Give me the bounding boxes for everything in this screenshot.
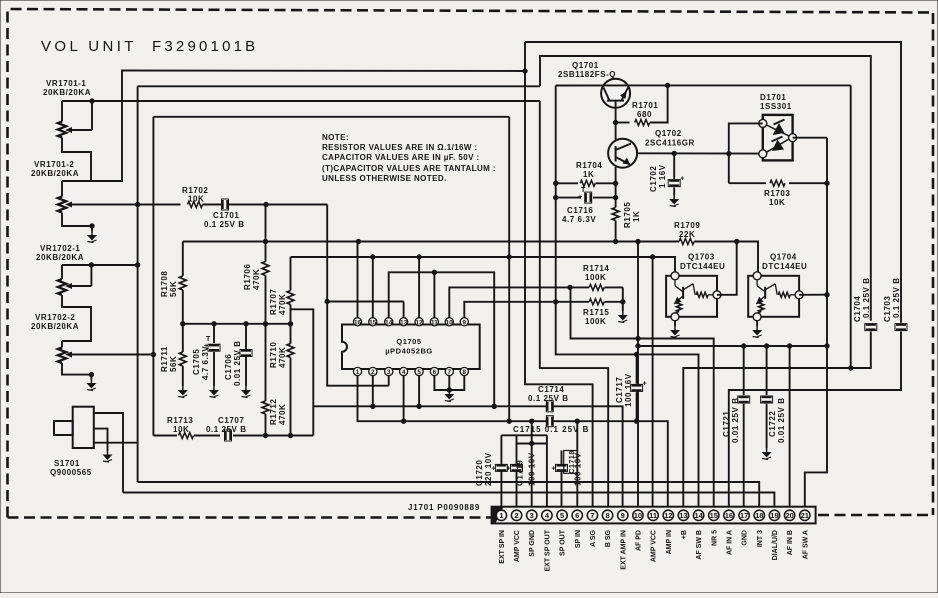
connector pin labels <box>499 529 809 571</box>
resistor R1701 <box>616 85 668 125</box>
svg-text:100 16V: 100 16V <box>624 373 633 407</box>
svg-text:B SG: B SG <box>605 529 612 547</box>
svg-text:0.01 25V B: 0.01 25V B <box>233 340 242 386</box>
svg-text:20: 20 <box>785 511 793 520</box>
wire y301.5 x327-trunk to pin13 <box>325 299 404 303</box>
wire x509 trunk <box>508 117 510 421</box>
potentiometer VR1701-1 <box>58 101 92 138</box>
transistor Q1704 <box>748 272 803 321</box>
svg-text:R1712: R1712 <box>269 399 278 425</box>
svg-text:7: 7 <box>448 369 452 376</box>
svg-text:SP GND: SP GND <box>529 530 536 557</box>
svg-text:R1708: R1708 <box>160 271 169 297</box>
svg-text:2SB1182FS-Q: 2SB1182FS-Q <box>558 70 616 79</box>
svg-text:VR1702-1: VR1702-1 <box>40 244 80 253</box>
svg-text:3: 3 <box>387 369 391 376</box>
resistor R1709 <box>674 221 700 245</box>
svg-text:C1719: C1719 <box>516 460 525 486</box>
svg-text:AF IN A: AF IN A <box>726 530 733 555</box>
wire x265.5 column C1701-R1706 <box>265 205 267 242</box>
wire bus4 <box>153 116 509 118</box>
svg-text:0.1 25V B: 0.1 25V B <box>862 277 871 318</box>
svg-text:C1721: C1721 <box>722 411 731 437</box>
wire IC pin2 down <box>372 376 374 407</box>
wire R1714 R1715 join <box>622 287 624 311</box>
resistor R1706 <box>243 242 269 324</box>
svg-text:10: 10 <box>634 511 642 520</box>
ground S1701 <box>103 451 113 463</box>
wire Q1702 collector out <box>637 150 763 156</box>
svg-text:C1704: C1704 <box>853 296 862 322</box>
ground VR1701-2 <box>87 231 97 243</box>
Q1703 label <box>680 253 725 271</box>
capacitor C1721 <box>722 346 750 507</box>
wire p11 feed <box>652 257 654 507</box>
svg-text:1SS301: 1SS301 <box>760 102 792 111</box>
svg-text:CAPACITOR VALUES ARE IN µF. 50: CAPACITOR VALUES ARE IN µF. 50V : <box>322 153 480 162</box>
ground Q1703 <box>670 326 680 338</box>
wire p5 col <box>561 451 563 507</box>
diode D1701 box <box>759 115 797 160</box>
wire trunk x137.6 bus2-to-S1701 line <box>135 86 139 482</box>
wire trunk x153.4 <box>151 117 155 436</box>
wire bus2 <box>138 85 540 87</box>
Q1704 label <box>762 253 807 271</box>
svg-text:SP OUT: SP OUT <box>560 529 567 556</box>
wire p4 col <box>546 435 548 506</box>
svg-text:F3290101B: F3290101B <box>152 38 258 55</box>
svg-text:4.7 6.3V: 4.7 6.3V <box>201 346 210 380</box>
svg-text:Q1705: Q1705 <box>396 337 421 346</box>
capacitor C1703 <box>883 277 907 330</box>
svg-text:C1720: C1720 <box>475 460 484 486</box>
svg-text:470K: 470K <box>278 347 287 368</box>
svg-text:EXT AMP IN: EXT AMP IN <box>620 530 627 570</box>
svg-text:C1701: C1701 <box>213 211 239 220</box>
ground R1711 <box>178 386 188 398</box>
svg-text:GND: GND <box>742 530 749 546</box>
capacitor C1717 <box>615 354 647 421</box>
potentiometer VR1702-2 <box>58 341 154 363</box>
svg-text:0.01 25V B: 0.01 25V B <box>777 397 786 443</box>
svg-text:A SG: A SG <box>590 529 597 546</box>
svg-text:680: 680 <box>637 110 652 119</box>
VR1701-1 label <box>43 79 91 97</box>
svg-text:16: 16 <box>725 511 733 520</box>
svg-text:100K: 100K <box>585 273 606 282</box>
transistor Q1702 <box>608 139 637 168</box>
wire IC pin16 up <box>357 242 359 318</box>
wire y492.5 line to pin19 <box>123 493 774 507</box>
svg-text:12: 12 <box>416 319 424 326</box>
svg-text:R1706: R1706 <box>243 264 252 290</box>
svg-text:20KB/20KA: 20KB/20KA <box>31 322 79 331</box>
svg-text:INT 3: INT 3 <box>757 530 764 547</box>
svg-text:1: 1 <box>499 511 503 520</box>
wire VR1702-1 top node <box>62 263 138 267</box>
wire VR1701-2 bottom <box>62 213 94 232</box>
resistor R1710 <box>269 342 294 436</box>
svg-text:12: 12 <box>664 511 672 520</box>
wire x850 trunk <box>850 85 852 368</box>
svg-text:C1705: C1705 <box>192 349 201 375</box>
svg-text:10K: 10K <box>173 425 189 434</box>
wire IC pins 6 7 8 ground <box>434 376 464 393</box>
svg-text:C1703: C1703 <box>883 296 892 322</box>
wire IC pin10 to R1714 <box>449 285 623 318</box>
svg-text:DTC144EU: DTC144EU <box>762 262 807 271</box>
svg-text:8: 8 <box>463 369 467 376</box>
svg-text:9: 9 <box>621 511 625 520</box>
svg-text:13: 13 <box>679 511 687 520</box>
resistor R1714 <box>583 264 609 290</box>
capacitor C1722 <box>761 346 786 448</box>
wire bus1 to pin7 staircase <box>523 42 593 507</box>
svg-text:56K: 56K <box>169 356 178 372</box>
wire Q1702 emitter down <box>615 167 617 242</box>
wire IC pin13 up <box>403 302 405 318</box>
svg-text:+: + <box>578 194 582 201</box>
svg-text:20KB/20KA: 20KB/20KA <box>36 253 84 262</box>
svg-text:17: 17 <box>740 511 748 520</box>
wire D1701 left pins <box>729 123 763 183</box>
svg-text:AF PD: AF PD <box>635 530 642 551</box>
svg-text:13: 13 <box>400 319 408 326</box>
svg-text:18: 18 <box>755 511 763 520</box>
wire Q1704 out <box>799 294 827 296</box>
wire C1707 to x313 <box>233 433 313 437</box>
connector pins <box>496 510 810 520</box>
wire IC pin4 down <box>403 376 405 422</box>
capacitor C1707 <box>206 416 247 441</box>
wire S1701 B to ground <box>94 429 108 451</box>
wire C1701 to x327 <box>264 202 327 206</box>
svg-text:4: 4 <box>402 369 406 376</box>
ground VR1702-2 <box>86 379 96 391</box>
wire VR1701-1 top node <box>62 99 540 103</box>
svg-text:0.1 25V B: 0.1 25V B <box>892 277 901 318</box>
connector J1701 body <box>492 507 816 524</box>
wire C1714 net <box>313 404 622 507</box>
svg-text:10: 10 <box>446 319 454 326</box>
ground C1722 <box>762 448 772 460</box>
note block <box>322 133 496 183</box>
wire D1701 right pin <box>793 137 827 139</box>
VR1702-1 label <box>36 244 84 262</box>
resistor R1702 <box>138 186 266 208</box>
wire Q1703 gnd <box>674 321 676 326</box>
svg-text:T: T <box>206 336 211 343</box>
svg-text:R1715: R1715 <box>583 308 609 317</box>
wire IC pin3 down <box>388 376 390 386</box>
wire rect2 corner <box>540 56 871 321</box>
transistor Q1701 <box>601 79 630 140</box>
wire rail y323.8 <box>181 322 293 326</box>
svg-text:19: 19 <box>770 511 778 520</box>
capacitor C1701 <box>204 199 245 229</box>
svg-text:+: + <box>507 465 511 472</box>
wire p1 col <box>500 435 502 506</box>
svg-text:22K: 22K <box>679 230 695 239</box>
svg-text:100K: 100K <box>585 317 606 326</box>
svg-text:220 10V: 220 10V <box>484 452 493 486</box>
wire VR1702-2 bottom <box>62 363 94 379</box>
wire y272.3 net <box>389 270 495 406</box>
ground C1702 <box>669 195 679 207</box>
svg-text:AMP IN: AMP IN <box>666 530 673 554</box>
wire x827 trunk <box>805 138 829 507</box>
wire Q1704 gnd <box>756 321 758 326</box>
wire p20 feed <box>789 346 791 507</box>
wire p10 trunk <box>636 242 640 507</box>
svg-text:9: 9 <box>463 319 467 326</box>
wire y257 net <box>291 255 676 272</box>
wire y482 line to pin18 <box>138 482 760 507</box>
svg-text:1K: 1K <box>632 211 641 222</box>
capacitor C1705 tantalum <box>192 324 220 386</box>
svg-text:2SC4116GR: 2SC4116GR <box>645 139 695 148</box>
svg-text:C1706: C1706 <box>224 354 233 380</box>
svg-text:11: 11 <box>649 511 657 520</box>
svg-text:RESISTOR VALUES ARE IN Ω.1/16: RESISTOR VALUES ARE IN Ω.1/16W : <box>322 143 478 152</box>
svg-text:VR1702-2: VR1702-2 <box>35 313 75 322</box>
VR1701-2 label <box>31 160 79 178</box>
wire IC pin11 up <box>433 272 435 317</box>
svg-text:R1714: R1714 <box>583 264 609 273</box>
wire IC pin15 up <box>372 257 374 318</box>
svg-text:56K: 56K <box>169 281 178 297</box>
wire IC pin12 up <box>418 257 420 318</box>
svg-text:6: 6 <box>575 511 579 520</box>
wire line P y346 <box>638 344 827 348</box>
title VOL UNIT F3290101B <box>41 38 258 55</box>
svg-text:1K: 1K <box>583 170 594 179</box>
wire p2 col <box>516 435 518 506</box>
wire bus y241.5 <box>183 239 758 243</box>
svg-text:+: + <box>643 380 647 387</box>
resistor R1713 <box>153 416 220 439</box>
capacitor C1706 <box>224 324 252 386</box>
ground C1705 <box>209 386 219 398</box>
svg-text:J1701 P0090889: J1701 P0090889 <box>408 503 480 512</box>
svg-text:21: 21 <box>801 511 809 520</box>
svg-text:R1709: R1709 <box>674 221 700 230</box>
svg-text:R1707: R1707 <box>269 289 278 315</box>
svg-text:C1716: C1716 <box>567 206 593 215</box>
ground IC <box>444 390 454 402</box>
capacitor C1716 tantalum <box>556 187 618 224</box>
wire C1703 bottom to pin16 <box>729 332 901 507</box>
svg-text:0.01 25V B: 0.01 25V B <box>731 397 740 443</box>
capacitor C1715 <box>513 416 589 434</box>
resistor R1715 <box>583 299 609 326</box>
svg-text:µPD4052BG: µPD4052BG <box>385 347 433 356</box>
wire p3 col <box>531 435 533 506</box>
svg-text:AMP VCC: AMP VCC <box>514 530 521 562</box>
wire S1701 C to trunk <box>94 442 138 444</box>
capacitor C1718 <box>552 450 583 486</box>
svg-text:VOL UNIT: VOL UNIT <box>41 38 137 55</box>
wire trunk x327.2 <box>327 205 389 386</box>
svg-text:C1717: C1717 <box>615 377 624 403</box>
svg-text:Q9000565: Q9000565 <box>50 468 92 477</box>
svg-text:20KB/20KA: 20KB/20KA <box>43 88 91 97</box>
wire IC pin5 down <box>418 376 420 407</box>
Q1701 label <box>558 61 616 79</box>
capacitor C1714 <box>528 385 569 412</box>
capacitor C1720 <box>475 452 507 486</box>
svg-text:15: 15 <box>710 511 718 520</box>
svg-text:16: 16 <box>354 319 362 326</box>
ground Q1704 <box>752 326 762 338</box>
svg-text:10K: 10K <box>769 198 785 207</box>
svg-text:7: 7 <box>590 511 594 520</box>
svg-text:+B: +B <box>681 530 688 539</box>
S1701 label <box>50 459 92 477</box>
transistor Q1703 <box>666 272 721 321</box>
svg-text:EXT SP OUT: EXT SP OUT <box>544 529 551 571</box>
ground C1706 <box>241 386 251 398</box>
svg-text:6: 6 <box>433 369 437 376</box>
svg-text:SP IN: SP IN <box>575 530 582 548</box>
connector J1701 label <box>408 503 480 512</box>
svg-text:Q1701: Q1701 <box>572 61 599 70</box>
wire S1701 A to y492.5 <box>94 413 123 493</box>
wire VR1702-1 bottom jog <box>62 295 91 341</box>
svg-text:1 16V: 1 16V <box>658 164 667 188</box>
svg-text:14: 14 <box>385 319 393 326</box>
resistor R1712 <box>262 324 287 436</box>
wire bus1 left corner <box>62 71 525 182</box>
svg-text:VR1701-1: VR1701-1 <box>46 79 86 88</box>
wire p15 feed <box>571 287 714 506</box>
svg-text:DTC144EU: DTC144EU <box>680 262 725 271</box>
resistor R1705 <box>612 202 641 228</box>
svg-text:VR1701-2: VR1701-2 <box>34 160 74 169</box>
VR1702-2 label <box>31 313 79 331</box>
svg-text:5: 5 <box>417 369 421 376</box>
svg-text:470K: 470K <box>252 269 261 290</box>
svg-text:Q1702: Q1702 <box>655 129 682 138</box>
svg-text:UNLESS OTHERWISE NOTED.: UNLESS OTHERWISE NOTED. <box>322 174 447 183</box>
svg-text:100 10V: 100 10V <box>528 452 537 486</box>
svg-text:14: 14 <box>694 511 703 520</box>
svg-text:R1713: R1713 <box>167 416 193 425</box>
svg-text:+: + <box>680 176 684 183</box>
svg-text:10K: 10K <box>188 195 204 204</box>
svg-text:470K: 470K <box>278 404 287 425</box>
wire bus3 corner <box>540 101 608 507</box>
wire bus to Q1704 base <box>737 242 758 272</box>
svg-text:2: 2 <box>371 369 375 376</box>
D1701 label <box>760 93 792 111</box>
svg-text:Q1704: Q1704 <box>770 253 797 262</box>
svg-text:(T)CAPACITOR VALUES ARE TANTAL: (T)CAPACITOR VALUES ARE TANTALUM : <box>322 164 496 173</box>
ground R1714 R1715 <box>618 300 628 323</box>
potentiometer VR1702-1 <box>58 265 92 295</box>
svg-text:470K: 470K <box>278 294 287 315</box>
capacitor C1719 <box>507 452 537 486</box>
svg-text:+: + <box>552 465 556 472</box>
svg-text:AF SW A: AF SW A <box>802 530 809 559</box>
wire p6 col <box>576 421 578 507</box>
Q1702 label <box>645 129 695 148</box>
svg-text:5: 5 <box>560 511 564 520</box>
svg-text:C1722: C1722 <box>768 411 777 437</box>
wire Q1703 out <box>717 242 737 295</box>
svg-text:20KB/20KA: 20KB/20KA <box>31 169 79 178</box>
wire IC pin9 to R1715 <box>464 300 623 318</box>
svg-text:0.1 25V B: 0.1 25V B <box>206 425 247 434</box>
svg-text:R1704: R1704 <box>576 161 602 170</box>
svg-text:4.7 6.3V: 4.7 6.3V <box>562 215 596 224</box>
svg-text:R1705: R1705 <box>623 202 632 228</box>
svg-text:NR 5: NR 5 <box>711 530 718 546</box>
svg-text:8: 8 <box>606 511 610 520</box>
svg-text:AMP VCC: AMP VCC <box>651 530 658 562</box>
capacitor C1704 <box>853 277 877 330</box>
svg-text:0.1 25V B: 0.1 25V B <box>528 394 569 403</box>
switch S1701 body <box>54 407 94 448</box>
svg-text:R1703: R1703 <box>764 189 790 198</box>
wire cap box top <box>501 421 547 445</box>
svg-text:S1701: S1701 <box>54 459 80 468</box>
svg-text:EXT SP IN: EXT SP IN <box>499 530 506 564</box>
svg-text:AF IN B: AF IN B <box>787 530 794 555</box>
wire VR1701-1 bottom jog <box>62 138 91 182</box>
resistor R1708 <box>160 242 186 324</box>
IC pin circles <box>353 318 468 376</box>
svg-text:AF SW B: AF SW B <box>696 530 703 560</box>
resistor R1703 <box>729 180 829 207</box>
svg-text:1: 1 <box>356 369 360 376</box>
potentiometer VR1701-2 <box>58 181 138 213</box>
svg-text:DIAL/U/D: DIAL/U/D <box>772 530 779 560</box>
svg-text:0.1 25V B: 0.1 25V B <box>204 220 245 229</box>
wire Q1703 in <box>653 256 675 258</box>
svg-text:11: 11 <box>431 319 438 326</box>
svg-text:R1701: R1701 <box>632 101 658 110</box>
svg-text:3: 3 <box>530 511 534 520</box>
wire C1704 bottom to pin13 <box>683 332 871 507</box>
wire rect1 top <box>525 42 901 323</box>
svg-text:C1707: C1707 <box>218 416 244 425</box>
resistor R1711 <box>160 324 186 386</box>
wire Q1701 top rail <box>556 83 851 87</box>
wire C1715 net <box>358 376 668 507</box>
svg-text:C1714: C1714 <box>538 385 564 394</box>
svg-text:15: 15 <box>369 319 377 326</box>
wire x555 trunk supply <box>554 86 699 507</box>
svg-text:T: T <box>581 187 586 194</box>
resistor R1707 <box>269 257 294 344</box>
capacitor C1702 <box>649 153 684 195</box>
svg-text:D1701: D1701 <box>760 93 786 102</box>
wire R1707R1710 junction to C1707 wire <box>291 309 314 435</box>
svg-text:NOTE:: NOTE: <box>322 133 349 142</box>
svg-text:C1702: C1702 <box>649 166 658 192</box>
IC Q1705 body <box>342 325 480 370</box>
resistor R1704 <box>556 161 618 186</box>
svg-text:Q1703: Q1703 <box>688 253 715 262</box>
svg-text:100 10V: 100 10V <box>574 452 583 486</box>
svg-text:R1710: R1710 <box>269 342 278 368</box>
wire Q1701 to R1701 node <box>613 120 617 124</box>
svg-text:2: 2 <box>514 511 518 520</box>
svg-text:R1711: R1711 <box>160 346 169 372</box>
